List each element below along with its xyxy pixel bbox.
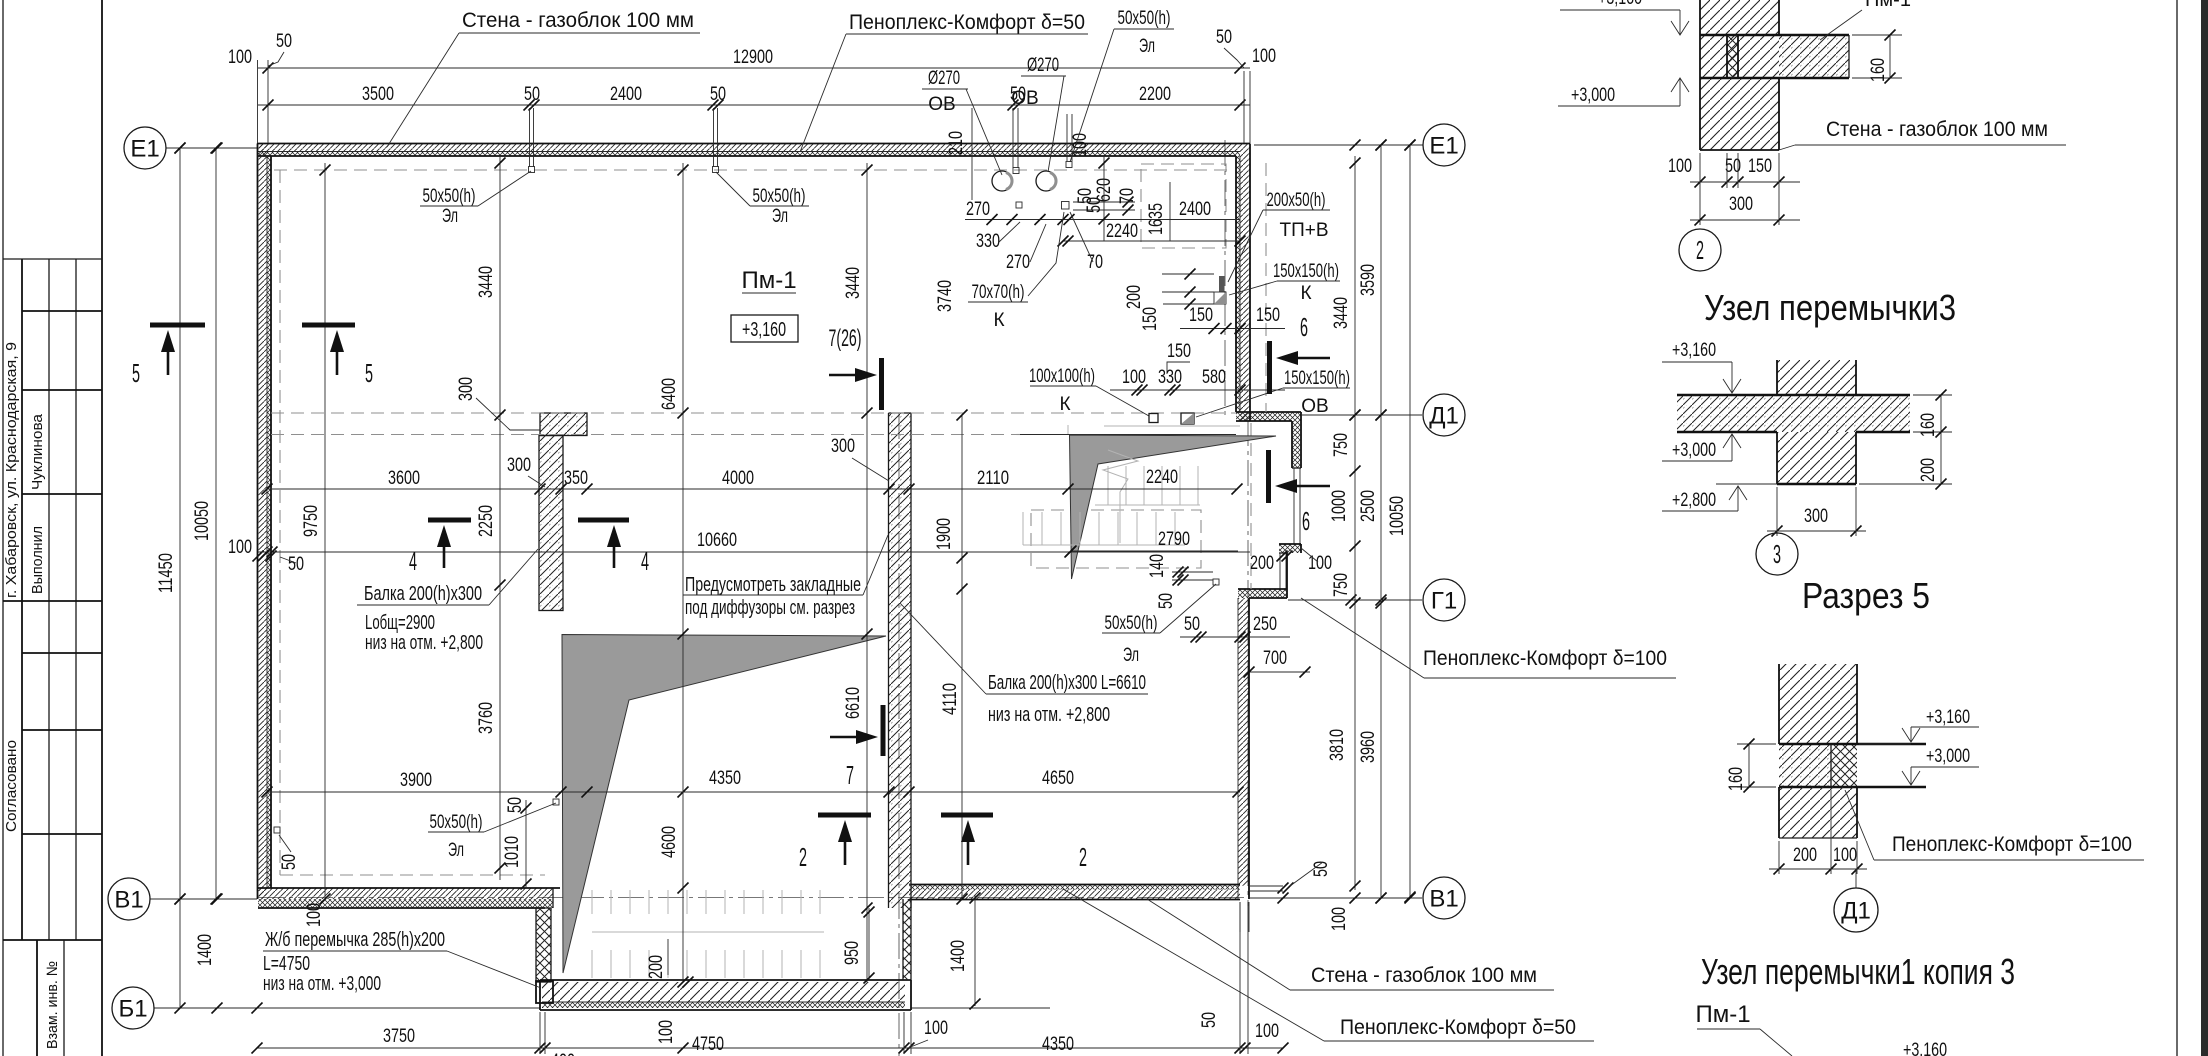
small square markers kitchen — [1066, 162, 1072, 168]
detail2 circle 2 — [1679, 229, 1721, 271]
svg-text:+3,160: +3,160 — [742, 319, 786, 341]
vertical dims protrusion — [868, 908, 870, 980]
protrusion bottom gasoblock — [542, 982, 905, 1002]
svg-text:3600: 3600 — [388, 468, 420, 489]
wall D1 jog band — [1236, 412, 1301, 421]
lintel marker box — [536, 981, 553, 1003]
dim row 3900/4350/4650 y=792 — [267, 791, 1240, 793]
svg-text:150: 150 — [1256, 305, 1280, 326]
svg-text:2: 2 — [1079, 842, 1087, 872]
svg-text:2250: 2250 — [476, 505, 497, 537]
svg-text:150x150(h): 150x150(h) — [1284, 368, 1350, 389]
section mark 7 lower — [881, 705, 886, 756]
extension lines bottom — [539, 1012, 541, 1054]
svg-text:Эл: Эл — [1139, 36, 1155, 57]
title block — [2, 0, 4, 1056]
svg-text:2400: 2400 — [610, 84, 642, 105]
dim line x1381 (3590/2500/3960) — [1380, 145, 1382, 898]
svg-text:ОВ: ОВ — [928, 94, 955, 115]
svg-text:4: 4 — [641, 546, 649, 576]
svg-text:50x50(h): 50x50(h) — [423, 186, 476, 207]
detail2 slab — [1779, 35, 1849, 78]
bay wall upper crosshatch — [1292, 421, 1301, 468]
svg-text:1400: 1400 — [195, 934, 216, 966]
column 150x150 with triangle — [1214, 292, 1226, 304]
convector TP+V element — [1219, 276, 1225, 292]
svg-text:3760: 3760 — [476, 702, 497, 734]
svg-text:160: 160 — [1868, 58, 1889, 82]
vent pipe circle 1 — [992, 171, 1012, 191]
svg-text:К: К — [1059, 394, 1070, 415]
svg-text:Предусмотреть закладные: Предусмотреть закладные — [685, 574, 861, 596]
detail3 stem — [1777, 432, 1856, 484]
svg-text:4000: 4000 — [722, 468, 754, 489]
interior vertical dim x867 (3440/6610) — [866, 163, 868, 982]
svg-text:2110: 2110 — [977, 468, 1009, 489]
extension lines small columns top — [529, 108, 531, 167]
svg-text:50: 50 — [1084, 197, 1105, 213]
svg-text:Стена - газоблок 100 мм: Стена - газоблок 100 мм — [1311, 964, 1537, 987]
dim row 3500/50/2400/50/50/2200 — [258, 104, 1250, 106]
razrez5 circle D1 — [1855, 869, 1857, 888]
detail2 dims 100/50/150 — [1690, 181, 1800, 183]
svg-text:под диффузоры см. разрез: под диффузоры см. разрез — [685, 597, 855, 619]
razrez5 wall upper — [1779, 664, 1857, 744]
axis V1 line left — [150, 898, 257, 900]
svg-text:7: 7 — [846, 760, 854, 790]
svg-text:+3,000: +3,000 — [1672, 440, 1716, 461]
axis G1 line right — [1288, 599, 1422, 601]
svg-text:5: 5 — [365, 358, 373, 388]
svg-text:+3,160: +3,160 — [1598, 0, 1642, 9]
gray triangle upper (stairs) — [1070, 435, 1277, 579]
dims 2790 stairs line — [1071, 550, 1238, 552]
svg-text:6: 6 — [1300, 312, 1308, 342]
svg-text:200x50(h): 200x50(h) — [1267, 190, 1326, 211]
kitchen dim 2240 — [1063, 240, 1240, 242]
section mark 6 lower — [1266, 450, 1271, 503]
svg-text:Эл: Эл — [1123, 645, 1139, 666]
svg-text:4350: 4350 — [1042, 1034, 1074, 1055]
svg-text:200: 200 — [1793, 845, 1817, 866]
dashed line above V1 wall — [280, 874, 545, 876]
svg-text:140: 140 — [1147, 554, 1168, 578]
section mark 2 right — [941, 813, 993, 818]
svg-text:3960: 3960 — [1358, 731, 1379, 763]
svg-text:330: 330 — [976, 231, 1000, 252]
svg-text:70: 70 — [1117, 188, 1138, 204]
svg-text:150x150(h): 150x150(h) — [1273, 261, 1339, 282]
svg-text:3740: 3740 — [935, 280, 956, 312]
svg-text:70x70(h): 70x70(h) — [972, 282, 1025, 303]
svg-text:Стена - газоблок 100 мм: Стена - газоблок 100 мм — [1826, 118, 2048, 141]
svg-text:+3,000: +3,000 — [1926, 746, 1970, 767]
svg-text:2: 2 — [799, 842, 807, 872]
section mark 7 upper — [879, 358, 884, 410]
svg-text:100: 100 — [304, 903, 325, 927]
svg-text:2240: 2240 — [1106, 221, 1138, 242]
svg-text:3500: 3500 — [362, 84, 394, 105]
section mark 2 left — [818, 813, 871, 818]
svg-text:К: К — [1300, 283, 1311, 304]
svg-text:2: 2 — [1696, 235, 1704, 265]
T-column stem — [539, 436, 563, 611]
svg-text:+3,160: +3,160 — [1926, 707, 1970, 728]
stair treads upper flight — [1023, 466, 1200, 545]
svg-text:2500: 2500 — [1358, 490, 1379, 522]
vertical grid dash-dot lines — [898, 413, 900, 1056]
svg-text:200: 200 — [646, 955, 667, 979]
section mark 6 upper — [1267, 341, 1272, 394]
dashed corridor line upper — [271, 412, 1236, 414]
svg-text:6610: 6610 — [843, 687, 864, 719]
svg-text:3900: 3900 — [400, 770, 432, 791]
svg-text:3810: 3810 — [1327, 729, 1348, 761]
razrez5 slab — [1779, 744, 1831, 787]
svg-text:низ на отм. +3,000: низ на отм. +3,000 — [263, 973, 381, 995]
svg-text:750: 750 — [1331, 433, 1352, 457]
svg-text:Ø270: Ø270 — [928, 68, 960, 89]
svg-text:150: 150 — [1167, 341, 1191, 362]
svg-text:4350: 4350 — [709, 768, 741, 789]
svg-text:330: 330 — [1158, 367, 1182, 388]
svg-text:400: 400 — [551, 1051, 575, 1056]
svg-text:низ на отм. +2,800: низ на отм. +2,800 — [365, 632, 483, 654]
razrez5 insulation — [1831, 744, 1857, 787]
svg-text:7(26): 7(26) — [829, 325, 862, 352]
small square 50x50 near bay — [1213, 579, 1219, 585]
svg-text:Эл: Эл — [448, 840, 464, 861]
svg-text:2790: 2790 — [1158, 529, 1190, 550]
protrusion bottom penoplex — [542, 1002, 905, 1008]
svg-text:100: 100 — [1255, 1021, 1279, 1042]
svg-text:300: 300 — [1804, 506, 1828, 527]
svg-text:50: 50 — [1156, 593, 1177, 609]
svg-text:300: 300 — [456, 377, 477, 401]
svg-text:50x50(h): 50x50(h) — [1118, 8, 1171, 29]
svg-text:100x100(h): 100x100(h) — [1029, 366, 1095, 387]
wall dims right 50/100 — [1250, 885, 1283, 887]
svg-text:100: 100 — [1668, 156, 1692, 177]
bay window lower — [1279, 553, 1281, 589]
dim row 12900 — [258, 67, 1250, 69]
svg-text:750: 750 — [1331, 573, 1352, 597]
svg-text:Узел перемычки1 копия 3: Узел перемычки1 копия 3 — [1701, 951, 2015, 992]
axis circle V1 right — [1423, 877, 1465, 919]
svg-text:Согласовано: Согласовано — [3, 740, 20, 832]
svg-text:50: 50 — [276, 31, 292, 52]
svg-text:3750: 3750 — [383, 1026, 415, 1047]
protrusion bottom wall box — [540, 979, 911, 981]
svg-text:100: 100 — [228, 537, 252, 558]
svg-text:4110: 4110 — [940, 683, 961, 715]
svg-text:700: 700 — [1263, 648, 1287, 669]
svg-text:50: 50 — [1199, 1012, 1220, 1028]
section mark 4 right — [578, 518, 629, 523]
vent pipe circle 2 — [1036, 171, 1056, 191]
svg-text:100: 100 — [924, 1018, 948, 1039]
svg-text:160: 160 — [1726, 767, 1747, 791]
svg-text:ОВ: ОВ — [1011, 88, 1038, 109]
svg-text:6400: 6400 — [659, 378, 680, 410]
dim line x325 (9750) — [324, 163, 326, 899]
interior vertical dim x683 (6400/4600) — [682, 163, 684, 982]
svg-text:Балка 200(h)x300 L=6610: Балка 200(h)x300 L=6610 — [988, 672, 1146, 694]
svg-text:50x50(h): 50x50(h) — [430, 812, 483, 833]
svg-text:2240: 2240 — [1146, 467, 1178, 488]
axis E1 line right — [1254, 144, 1423, 146]
svg-text:Узел перемычки3: Узел перемычки3 — [1704, 287, 1956, 328]
interior wall — [889, 413, 912, 908]
svg-text:L=4750: L=4750 — [263, 953, 310, 975]
bay window upper — [1292, 467, 1301, 469]
svg-text:Д1: Д1 — [1841, 897, 1871, 924]
svg-text:2400: 2400 — [1179, 199, 1211, 220]
svg-text:1400: 1400 — [948, 940, 969, 972]
svg-text:9750: 9750 — [301, 505, 322, 537]
svg-text:10050: 10050 — [1387, 496, 1408, 536]
razrez5 dim 160 — [1748, 744, 1750, 787]
svg-text:150: 150 — [1748, 156, 1772, 177]
svg-text:Взам. инв. №: Взам. инв. № — [44, 961, 61, 1049]
light line above upper triangle — [1104, 425, 1240, 427]
dim 700 y=672 — [1249, 671, 1310, 673]
dashed line inner left offset — [279, 170, 281, 875]
svg-text:100: 100 — [1833, 845, 1857, 866]
axis circle D1 right — [1423, 394, 1465, 436]
wall right lower gasoblock — [1238, 598, 1249, 886]
svg-text:200: 200 — [1124, 285, 1145, 309]
svg-text:100: 100 — [1329, 907, 1350, 931]
svg-text:Г1: Г1 — [1431, 587, 1457, 614]
section mark 4 left — [428, 518, 471, 523]
svg-text:950: 950 — [842, 941, 863, 965]
svg-text:50: 50 — [279, 854, 300, 870]
svg-text:210: 210 — [946, 131, 967, 155]
svg-text:Б1: Б1 — [118, 995, 147, 1022]
section mark 5 right — [302, 323, 355, 328]
axis dashdot через план — [258, 897, 1248, 899]
axis circle E1 right — [1423, 124, 1465, 166]
svg-text:50: 50 — [1184, 614, 1200, 635]
detail2 insulation column — [1727, 35, 1738, 78]
svg-text:160: 160 — [1918, 413, 1939, 437]
svg-text:250: 250 — [1253, 614, 1277, 635]
axis E1 line left — [166, 147, 257, 149]
svg-text:3440: 3440 — [843, 267, 864, 299]
detail3 slab — [1677, 395, 1910, 432]
dim line x500 (3440/2250/3760) — [499, 156, 501, 880]
svg-text:100: 100 — [1252, 46, 1276, 67]
svg-text:3: 3 — [1773, 539, 1781, 569]
svg-text:4600: 4600 — [659, 826, 680, 858]
svg-text:К: К — [993, 310, 1004, 331]
detail2 wall hatch — [1700, 0, 1779, 150]
svg-text:Ж/б перемычка 285(h)x200: Ж/б перемычка 285(h)x200 — [265, 929, 445, 951]
svg-text:10050: 10050 — [192, 501, 213, 541]
dim line x216 (10050) — [215, 148, 217, 899]
razrez5 wall lower — [1779, 787, 1857, 838]
detail3 dim 300 — [1767, 530, 1866, 532]
svg-text:Выполнил: Выполнил — [29, 526, 46, 594]
svg-text:12900: 12900 — [733, 47, 773, 68]
wall G1 band crosshatch — [1238, 589, 1287, 598]
svg-text:Эл: Эл — [442, 206, 458, 227]
svg-text:10660: 10660 — [697, 530, 737, 551]
sheet frame right border — [2176, 0, 2178, 1056]
svg-text:50: 50 — [524, 84, 540, 105]
svg-text:Ø270: Ø270 — [1027, 55, 1059, 76]
svg-text:50: 50 — [710, 84, 726, 105]
svg-text:Чуклинова: Чуклинова — [29, 413, 46, 490]
svg-text:50: 50 — [505, 797, 526, 813]
axis circle V1 left — [108, 878, 150, 920]
protrusion right band — [903, 899, 911, 980]
svg-text:3590: 3590 — [1358, 264, 1379, 296]
svg-text:Пм-1: Пм-1 — [1865, 0, 1911, 11]
svg-text:ОВ: ОВ — [1301, 396, 1328, 417]
svg-text:50x50(h): 50x50(h) — [1105, 613, 1158, 634]
svg-text:50: 50 — [1216, 27, 1232, 48]
detail3 circle 3 — [1756, 533, 1798, 575]
svg-text:Lобщ=2900: Lобщ=2900 — [365, 612, 435, 634]
svg-text:низ на отм. +2,800: низ на отм. +2,800 — [988, 704, 1110, 726]
detail2 dim 160 — [1889, 35, 1891, 78]
svg-text:1010: 1010 — [502, 836, 523, 868]
svg-text:Пм-1: Пм-1 — [1695, 1001, 1750, 1028]
axis circle G1 right — [1423, 579, 1465, 621]
gray triangle big (stairs) — [562, 635, 886, 974]
svg-text:4750: 4750 — [692, 1034, 724, 1055]
svg-text:г. Хабаровск, ул. Краснодарска: г. Хабаровск, ул. Краснодарская, 9 — [3, 342, 20, 598]
svg-text:1635: 1635 — [1146, 203, 1167, 235]
dashed rect stair opening — [1031, 510, 1201, 568]
dim line x526 (50/1010) — [525, 800, 527, 888]
dim line x1355 (3440/750/1000/750/3810) — [1354, 156, 1356, 890]
dashed line inner top offset — [274, 169, 1232, 171]
protrusion left band — [536, 908, 551, 982]
svg-text:+3,160: +3,160 — [1903, 1040, 1947, 1056]
svg-text:100: 100 — [228, 47, 252, 68]
svg-text:Пеноплекс-Комфорт δ=50: Пеноплекс-Комфорт δ=50 — [1340, 1016, 1576, 1039]
svg-text:Пм-1: Пм-1 — [741, 267, 796, 294]
axis circle E1 left — [124, 127, 166, 169]
svg-text:200: 200 — [1250, 553, 1274, 574]
svg-text:Е1: Е1 — [130, 135, 159, 162]
dim line x180 (11450/1400) — [179, 148, 181, 1008]
svg-text:50x50(h): 50x50(h) — [753, 186, 806, 207]
svg-text:Балка 200(h)x300: Балка 200(h)x300 — [364, 583, 482, 605]
axis V1 line right — [1250, 897, 1422, 899]
svg-text:3440: 3440 — [476, 266, 497, 298]
wall left gasoblock band — [258, 144, 268, 900]
axis circle B1 left — [112, 987, 154, 1029]
dim x962 (1900/4110) — [961, 415, 963, 899]
svg-text:50: 50 — [288, 554, 304, 575]
svg-text:В1: В1 — [114, 886, 143, 913]
svg-text:150: 150 — [1140, 307, 1161, 331]
wall V1 right gasoblock band — [909, 890, 1240, 900]
detail2 dim 300 — [1690, 219, 1800, 221]
razrez5 dims 200/100 — [1769, 868, 1867, 870]
svg-text:3440: 3440 — [1331, 297, 1352, 329]
svg-text:2200: 2200 — [1139, 84, 1171, 105]
svg-text:4: 4 — [409, 546, 417, 576]
small square on left wall — [274, 827, 280, 833]
svg-text:Е1: Е1 — [1429, 132, 1458, 159]
wall left penoplex band — [267, 156, 271, 888]
svg-text:270: 270 — [966, 199, 990, 220]
dashed lines bay room — [1250, 423, 1252, 589]
svg-text:Стена - газоблок 100 мм: Стена - газоблок 100 мм — [462, 9, 694, 32]
svg-text:150: 150 — [1189, 305, 1213, 326]
detail3 upper wall stub — [1777, 360, 1856, 395]
dims 100/330/580 row y=390 — [1110, 389, 1285, 391]
bottom dim row — [257, 1047, 1283, 1049]
squares on D1 band — [1149, 414, 1158, 423]
svg-text:300: 300 — [831, 436, 855, 457]
dim line x1410 (10050) — [1409, 145, 1411, 897]
svg-text:Пеноплекс-Комфорт δ=100: Пеноплекс-Комфорт δ=100 — [1892, 833, 2132, 856]
stair treads lower (terrace) — [592, 890, 824, 978]
wall V1 left gasoblock band — [258, 888, 553, 899]
svg-text:100: 100 — [1122, 367, 1146, 388]
kitchen dims row A — [965, 219, 1240, 221]
svg-text:В1: В1 — [1429, 885, 1458, 912]
detail3 dim 160/200 — [1940, 395, 1942, 484]
svg-text:6: 6 — [1302, 506, 1310, 536]
svg-text:Эл: Эл — [772, 206, 788, 227]
dims 150/150 row y=328 — [1180, 328, 1285, 330]
svg-text:5: 5 — [132, 358, 140, 388]
svg-text:1900: 1900 — [934, 518, 955, 550]
dashed rect kitchen ceiling opening — [1141, 164, 1226, 248]
bay wall middle crosshatch block — [1279, 544, 1301, 553]
wall top gasoblock band — [258, 144, 1240, 152]
dim row 10660 y=552 — [258, 551, 1250, 553]
dims 50/250 row y=637 — [1180, 636, 1290, 638]
dashed corridor line lower — [271, 434, 1020, 436]
wall right gasoblock band — [1240, 144, 1250, 422]
svg-text:300: 300 — [1729, 194, 1753, 215]
svg-text:100: 100 — [656, 1020, 677, 1044]
wall top penoplex band — [258, 152, 1240, 157]
stair direction zigzag — [1103, 450, 1138, 543]
dim row 3600/300/350/4000/2110/2240 y=489 — [267, 488, 1238, 490]
svg-text:Пеноплекс-Комфорт δ=50: Пеноплекс-Комфорт δ=50 — [849, 11, 1085, 34]
svg-text:270: 270 — [1006, 252, 1030, 273]
svg-text:580: 580 — [1202, 367, 1226, 388]
svg-text:1000: 1000 — [1329, 490, 1350, 522]
T-column bar — [540, 413, 587, 436]
svg-text:ТП+В: ТП+В — [1279, 220, 1328, 241]
svg-text:+3,000: +3,000 — [1571, 85, 1615, 106]
svg-text:11450: 11450 — [156, 553, 177, 593]
svg-text:Разрез 5: Разрез 5 — [1802, 575, 1930, 616]
svg-text:300: 300 — [507, 455, 531, 476]
wall right penoplex band — [1236, 156, 1240, 412]
svg-text:4650: 4650 — [1042, 768, 1074, 789]
axis B1 line — [154, 1007, 540, 1009]
svg-text:+3,160: +3,160 — [1672, 340, 1716, 361]
svg-text:Пеноплекс-Комфорт δ=100: Пеноплекс-Комфорт δ=100 — [1423, 647, 1667, 670]
svg-text:Д1: Д1 — [1429, 402, 1459, 429]
+3,160 box — [731, 315, 798, 342]
svg-text:350: 350 — [564, 468, 588, 489]
wall V1 left penoplex band — [258, 899, 553, 908]
section mark 5 left — [150, 323, 205, 328]
axis D1 line right — [1302, 414, 1422, 416]
